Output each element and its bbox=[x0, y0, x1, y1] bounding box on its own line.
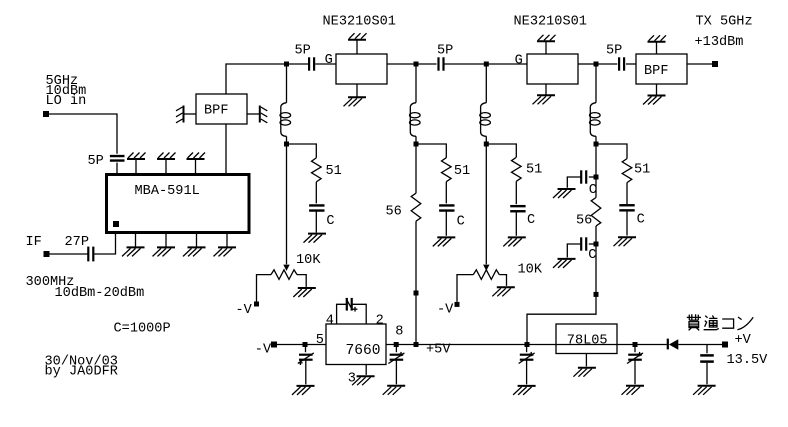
svg-text:IF: IF bbox=[26, 235, 42, 250]
ground MBA top 2 bbox=[157, 153, 176, 174]
svg-text:C: C bbox=[637, 213, 645, 228]
wire node-C down bbox=[485, 67, 487, 103]
wire rail node-A to C1 bbox=[289, 63, 309, 65]
node C rail-3 bbox=[484, 62, 489, 67]
wire VR2 to ground bbox=[499, 275, 506, 286]
wire MBA to BPF1 bbox=[225, 124, 227, 173]
wire 5P cap to MBA bbox=[116, 163, 118, 173]
wire node-H to pot2 bbox=[485, 147, 487, 265]
resistor R5 51 bbox=[622, 159, 632, 183]
inductor L3 choke bbox=[480, 103, 491, 137]
svg-text:G: G bbox=[515, 53, 523, 68]
label 56 stage2 bbox=[386, 204, 402, 219]
wire node-D to C3 bbox=[599, 63, 618, 65]
op-amp U2 7660 box bbox=[326, 324, 386, 365]
ground MBA top 1 bbox=[127, 153, 146, 174]
label 10dBm bbox=[46, 84, 87, 99]
wire node-D down bbox=[595, 67, 597, 103]
svg-text:56: 56 bbox=[386, 204, 402, 219]
wire node-C to Q2 gate bbox=[489, 63, 528, 65]
svg-text:C: C bbox=[457, 214, 465, 229]
label 5GHz bbox=[46, 74, 79, 89]
svg-text:+13dBm: +13dBm bbox=[695, 35, 744, 50]
inductor L2 choke bbox=[410, 103, 421, 137]
label 5P stage3 bbox=[606, 44, 622, 59]
ground BPF2 top bbox=[648, 35, 667, 54]
label -V supply bbox=[255, 343, 272, 358]
svg-text:7660: 7660 bbox=[346, 343, 381, 359]
resistor R2 51 bbox=[442, 158, 452, 182]
label 5P input cap bbox=[88, 154, 104, 169]
capacitor C15 feedthrough bbox=[700, 355, 714, 361]
label 51 stage4 bbox=[634, 163, 650, 178]
stub open end BPF1 left bbox=[176, 106, 184, 123]
label BPF2 bbox=[644, 64, 668, 79]
label C stage3 bbox=[527, 213, 535, 228]
ground stage1 bypass bbox=[304, 234, 327, 243]
capacitor 27P IF coupling bbox=[88, 247, 93, 262]
ground C13 bbox=[513, 386, 536, 395]
label C stage1 bbox=[326, 214, 334, 229]
label 51 stage1 bbox=[326, 164, 342, 179]
label LO in bbox=[46, 94, 87, 109]
wire BPF1 to rail bbox=[226, 64, 285, 94]
ground Q1 bottom bbox=[344, 84, 367, 106]
resistor R4 51 bbox=[511, 157, 521, 181]
svg-text:-V: -V bbox=[437, 303, 454, 318]
wire node-E to pot1 bbox=[286, 147, 288, 265]
label 10K stage1 bbox=[296, 253, 321, 268]
node K stage4 upper bbox=[594, 175, 599, 180]
svg-text:+5V: +5V bbox=[426, 343, 451, 358]
capacitor C8 feedback upper bbox=[581, 170, 586, 183]
capacitor C5 bypass bbox=[439, 205, 454, 210]
label 300MHz bbox=[26, 275, 75, 290]
pin 8 label bbox=[395, 325, 403, 340]
wire node-H to R4 bbox=[489, 144, 517, 157]
wire Q1 drain to node-B bbox=[387, 63, 414, 65]
ground Q1 top bbox=[348, 33, 367, 54]
capacitor 5P LO coupling bbox=[110, 156, 125, 161]
wire R1 to C4 bbox=[315, 182, 317, 204]
node H stage3 bbox=[484, 142, 489, 147]
svg-text:56: 56 bbox=[576, 214, 592, 229]
node -V stage1 bbox=[254, 302, 259, 307]
label C stage4 branch bbox=[637, 213, 645, 228]
label NE3210S01 second bbox=[514, 15, 587, 30]
wire node-N to C11 bbox=[305, 347, 307, 352]
wire node-M to +5V rail bbox=[527, 297, 596, 343]
wire C7 to ground bbox=[626, 210, 628, 235]
terminal +V supply bbox=[722, 342, 728, 348]
svg-text:51: 51 bbox=[326, 164, 342, 179]
svg-text:51: 51 bbox=[526, 163, 542, 178]
svg-text:NE3210S01: NE3210S01 bbox=[514, 15, 587, 30]
wire VR1 to -V bbox=[257, 275, 272, 302]
ground 78L05 bbox=[573, 368, 596, 377]
svg-text:51: 51 bbox=[454, 164, 470, 179]
kanji 通 bbox=[704, 315, 719, 329]
pin 3 label bbox=[348, 372, 356, 387]
label 78L05 bbox=[567, 334, 608, 349]
label 27P bbox=[65, 235, 89, 250]
label 7660 bbox=[346, 343, 381, 359]
node J stage4 bbox=[594, 142, 599, 147]
pin 5 label bbox=[316, 333, 324, 348]
wire C9 to ground bbox=[567, 244, 581, 258]
wire R2 to C5 bbox=[445, 182, 447, 204]
wire +V cap stem bbox=[706, 345, 708, 354]
wire node-K to R6 bbox=[595, 179, 597, 197]
svg-text:5P: 5P bbox=[437, 44, 453, 59]
label G Q1 bbox=[325, 53, 333, 68]
label C stage2 bbox=[457, 214, 465, 229]
ground MBA bottom 2 bbox=[153, 234, 176, 257]
wire node-S to C13 bbox=[526, 347, 528, 352]
svg-text:27P: 27P bbox=[65, 235, 89, 250]
wire C1 to Q1 gate bbox=[315, 63, 336, 65]
wire node-F to R2 bbox=[418, 144, 446, 158]
svg-text:51: 51 bbox=[634, 163, 650, 178]
wire node-B down bbox=[415, 67, 417, 103]
label C lower stage4 bbox=[588, 248, 596, 263]
capacitor C6 bypass bbox=[510, 206, 525, 211]
wire R3 to node-G bbox=[415, 221, 417, 291]
svg-text:C: C bbox=[527, 213, 535, 228]
potentiometer VR2 wiper arrow bbox=[483, 265, 489, 271]
capacitor C2 5P interstage bbox=[439, 57, 444, 70]
svg-text:2: 2 bbox=[376, 314, 384, 329]
ground BPF2 bottom bbox=[643, 84, 666, 105]
wire node-B to C2 bbox=[419, 63, 437, 65]
label +V bbox=[735, 333, 752, 348]
wire node-F to R3 bbox=[415, 147, 417, 194]
wire node-G to +5V rail bbox=[415, 295, 417, 342]
potentiometer VR2 10K body bbox=[473, 270, 499, 280]
wire C13 to ground bbox=[526, 360, 528, 385]
wire node-A down bbox=[286, 67, 288, 103]
label NE3210S01 first bbox=[323, 15, 396, 30]
wire -V to pin5 bbox=[277, 344, 326, 346]
svg-text:10dBm-20dBm: 10dBm-20dBm bbox=[55, 286, 145, 301]
svg-text:NE3210S01: NE3210S01 bbox=[323, 15, 396, 30]
kanji 貫 bbox=[687, 314, 701, 330]
svg-text:10K: 10K bbox=[518, 263, 543, 278]
wire L1 to node-E bbox=[286, 136, 288, 142]
label 10K stage3 bbox=[518, 263, 543, 278]
capacitor C10 flying electrolytic bbox=[346, 298, 357, 312]
pin 2 label bbox=[376, 314, 384, 329]
ground MBA bottom 1 bbox=[122, 234, 145, 257]
label +5V bbox=[426, 343, 451, 358]
label 30/Nov/03 bbox=[45, 354, 118, 369]
ground MBA bottom 4 bbox=[214, 234, 237, 257]
node E stage1 bbox=[284, 142, 289, 147]
wire C4 to ground bbox=[315, 211, 317, 233]
ground VR1 bbox=[293, 288, 316, 297]
label -V stage1 bbox=[236, 303, 253, 318]
node U 78L05 in bbox=[633, 342, 638, 347]
label 51 stage3 bbox=[526, 163, 542, 178]
wire 78L05 ground stub bbox=[585, 354, 587, 367]
wire Q2 drain to node-D bbox=[578, 63, 594, 65]
label 56 stage4 bbox=[576, 214, 592, 229]
wire C3 to BPF2 bbox=[626, 63, 636, 65]
ground stage2 bypass bbox=[433, 237, 456, 246]
svg-text:TX 5GHz: TX 5GHz bbox=[696, 14, 753, 29]
node A rail-1 bbox=[284, 62, 289, 67]
svg-text:10K: 10K bbox=[296, 253, 321, 268]
capacitor C13 regulator out bbox=[519, 352, 535, 364]
ground C12 bbox=[383, 386, 406, 395]
terminal TX out bbox=[712, 61, 718, 67]
ground stage4 bypass bbox=[614, 237, 637, 246]
terminal IF in bbox=[44, 251, 50, 257]
capacitor C7 bypass bbox=[619, 205, 634, 210]
wire node-L to node-M bbox=[595, 246, 597, 292]
capacitor C12 +5V filter bbox=[388, 352, 404, 364]
wire node-J to node-K bbox=[595, 147, 597, 175]
svg-text:13.5V: 13.5V bbox=[727, 353, 769, 368]
resistor R1 51 bbox=[312, 158, 322, 182]
node M stage4 bbox=[594, 292, 599, 297]
wire 27P to MBA pin1 bbox=[93, 234, 115, 254]
label 13.5V bbox=[727, 353, 769, 368]
wire node-J to R5 bbox=[598, 144, 627, 159]
diode D1 reverse protection bbox=[668, 339, 679, 350]
svg-text:G: G bbox=[325, 53, 333, 68]
wire C12 to ground bbox=[395, 360, 397, 385]
ground Q2 bottom bbox=[533, 84, 556, 104]
wire VR1 to ground bbox=[297, 275, 306, 287]
wire IF input bbox=[50, 253, 89, 255]
inductor L1 choke bbox=[280, 103, 291, 137]
svg-text:5P: 5P bbox=[606, 44, 622, 59]
node L stage4 lower bbox=[594, 242, 599, 247]
capacitor C14 regulator in bbox=[627, 352, 643, 364]
node B rail-2 bbox=[414, 62, 419, 67]
wire pin4 stub bbox=[337, 304, 346, 324]
svg-text:5: 5 bbox=[316, 333, 324, 348]
node D rail-4 bbox=[594, 62, 599, 67]
resistor R3 56 bbox=[411, 193, 421, 221]
svg-text:3: 3 bbox=[348, 372, 356, 387]
wire R4 to C6 bbox=[515, 181, 517, 204]
mixer U1 MBA-591L bbox=[107, 175, 250, 233]
wire C15 to ground bbox=[706, 363, 708, 384]
wire R5 to C7 bbox=[626, 183, 628, 204]
wire BPF2 to TX out bbox=[687, 63, 712, 65]
terminal LO in bbox=[43, 111, 49, 117]
node G stage2 bbox=[414, 291, 419, 296]
ground pin3 bbox=[352, 376, 375, 385]
ground C9 bbox=[553, 259, 576, 268]
transistor Q2 NE3210S01 bbox=[527, 54, 578, 84]
label -V stage3 bbox=[437, 303, 454, 318]
ground MBA bottom 3 bbox=[183, 234, 206, 257]
capacitor C11 -V filter bbox=[298, 353, 314, 365]
wire node-K to C8 bbox=[589, 176, 594, 178]
ground stage3 bypass bbox=[503, 237, 526, 246]
node Q +5V bbox=[414, 342, 419, 347]
svg-text:-V: -V bbox=[255, 343, 272, 358]
svg-text:8: 8 bbox=[395, 325, 403, 340]
inductor L4 choke bbox=[590, 103, 601, 137]
ground C11 bbox=[292, 386, 315, 395]
ground VR2 bbox=[492, 287, 515, 296]
filter BPF1 bbox=[196, 94, 247, 124]
svg-text:+V: +V bbox=[735, 333, 752, 348]
wire R6 to node-L bbox=[595, 226, 597, 242]
pin 1 marker MBA bbox=[113, 221, 119, 227]
svg-text:5P: 5P bbox=[88, 154, 104, 169]
label 5P stage2 bbox=[437, 44, 453, 59]
ground C14 bbox=[622, 386, 645, 395]
ground Q2 top bbox=[537, 35, 556, 54]
wire L3 to node-H bbox=[485, 136, 487, 142]
svg-text:4: 4 bbox=[326, 314, 334, 329]
ground C8 bbox=[553, 189, 576, 198]
ground C15 bbox=[693, 386, 716, 395]
transistor Q1 NE3210S01 bbox=[336, 54, 387, 84]
node S 78L05 out bbox=[525, 342, 530, 347]
filter BPF2 bbox=[636, 54, 687, 84]
svg-text:BPF: BPF bbox=[644, 64, 668, 79]
kanji ン bbox=[737, 317, 753, 330]
label 10dBm-20dBm bbox=[55, 286, 145, 301]
node -V stage3 bbox=[455, 302, 460, 307]
svg-text:BPF: BPF bbox=[204, 104, 228, 119]
wire C11 to ground bbox=[305, 360, 307, 385]
label BPF1 bbox=[204, 104, 228, 119]
label C upper stage4 bbox=[589, 183, 597, 198]
svg-text:by JA0DFR: by JA0DFR bbox=[45, 365, 118, 380]
resistor R6 56 bbox=[591, 198, 601, 227]
label MBA-591L bbox=[135, 184, 200, 199]
wire node-L to C9 bbox=[589, 243, 594, 245]
ground MBA top 3 bbox=[187, 153, 206, 174]
stub open end BPF1 right bbox=[260, 106, 268, 123]
wire C6 to ground bbox=[515, 211, 517, 236]
terminal -V supply bbox=[271, 342, 277, 348]
svg-text:78L05: 78L05 bbox=[567, 334, 608, 349]
label +13dBm bbox=[695, 35, 744, 50]
wire LO input bbox=[49, 114, 117, 154]
svg-text:LO in: LO in bbox=[46, 94, 87, 109]
svg-text:MBA-591L: MBA-591L bbox=[135, 184, 200, 199]
pin 4 label bbox=[326, 314, 334, 329]
label IF bbox=[26, 235, 42, 250]
wire C2 to node-C bbox=[444, 63, 485, 65]
node P pin8 bbox=[394, 342, 399, 347]
capacitor C3 5P output coupling bbox=[619, 57, 624, 70]
svg-text:C: C bbox=[588, 248, 596, 263]
wire L2 to node-F bbox=[415, 136, 417, 142]
wire BPF1 right stub bbox=[247, 113, 259, 115]
wire pin3 stub bbox=[365, 365, 367, 375]
regulator U3 78L05 box bbox=[556, 324, 617, 354]
svg-text:C: C bbox=[326, 214, 334, 229]
node F stage2 bbox=[414, 142, 419, 147]
wire BPF1 left stub bbox=[184, 113, 196, 115]
label 5P stage1 bbox=[295, 44, 311, 59]
wire C14 to ground bbox=[634, 360, 636, 385]
wire pin2 stub bbox=[352, 304, 366, 324]
label G Q2 bbox=[515, 53, 523, 68]
wire node-P to C12 bbox=[395, 347, 397, 352]
kanji コ bbox=[722, 319, 733, 328]
wire C5 to ground bbox=[445, 211, 447, 236]
capacitor C4 bypass bbox=[309, 205, 324, 210]
label C=1000P bbox=[114, 322, 171, 337]
wire node-E to R1 bbox=[289, 144, 317, 158]
label 51 stage2 bbox=[454, 164, 470, 179]
capacitor C1 5P interstage bbox=[309, 57, 314, 70]
wire +5V rail bbox=[386, 344, 667, 346]
svg-text:5P: 5P bbox=[295, 44, 311, 59]
wire L4 to node-J bbox=[595, 136, 597, 142]
svg-text:C=1000P: C=1000P bbox=[114, 322, 171, 337]
label by JA0DFR bbox=[45, 365, 118, 380]
label TX 5GHz bbox=[696, 14, 753, 29]
capacitor C9 feedback lower bbox=[581, 237, 586, 250]
wire C8 to ground bbox=[567, 177, 581, 188]
svg-text:-V: -V bbox=[236, 303, 253, 318]
wire diode to +V terminal bbox=[678, 344, 722, 346]
wire VR2 to -V bbox=[457, 275, 473, 302]
potentiometer VR1 wiper arrow bbox=[283, 265, 289, 271]
node N -V rail bbox=[303, 342, 308, 347]
potentiometer VR1 10K body bbox=[271, 270, 297, 280]
wire node-U to C14 bbox=[634, 347, 636, 352]
